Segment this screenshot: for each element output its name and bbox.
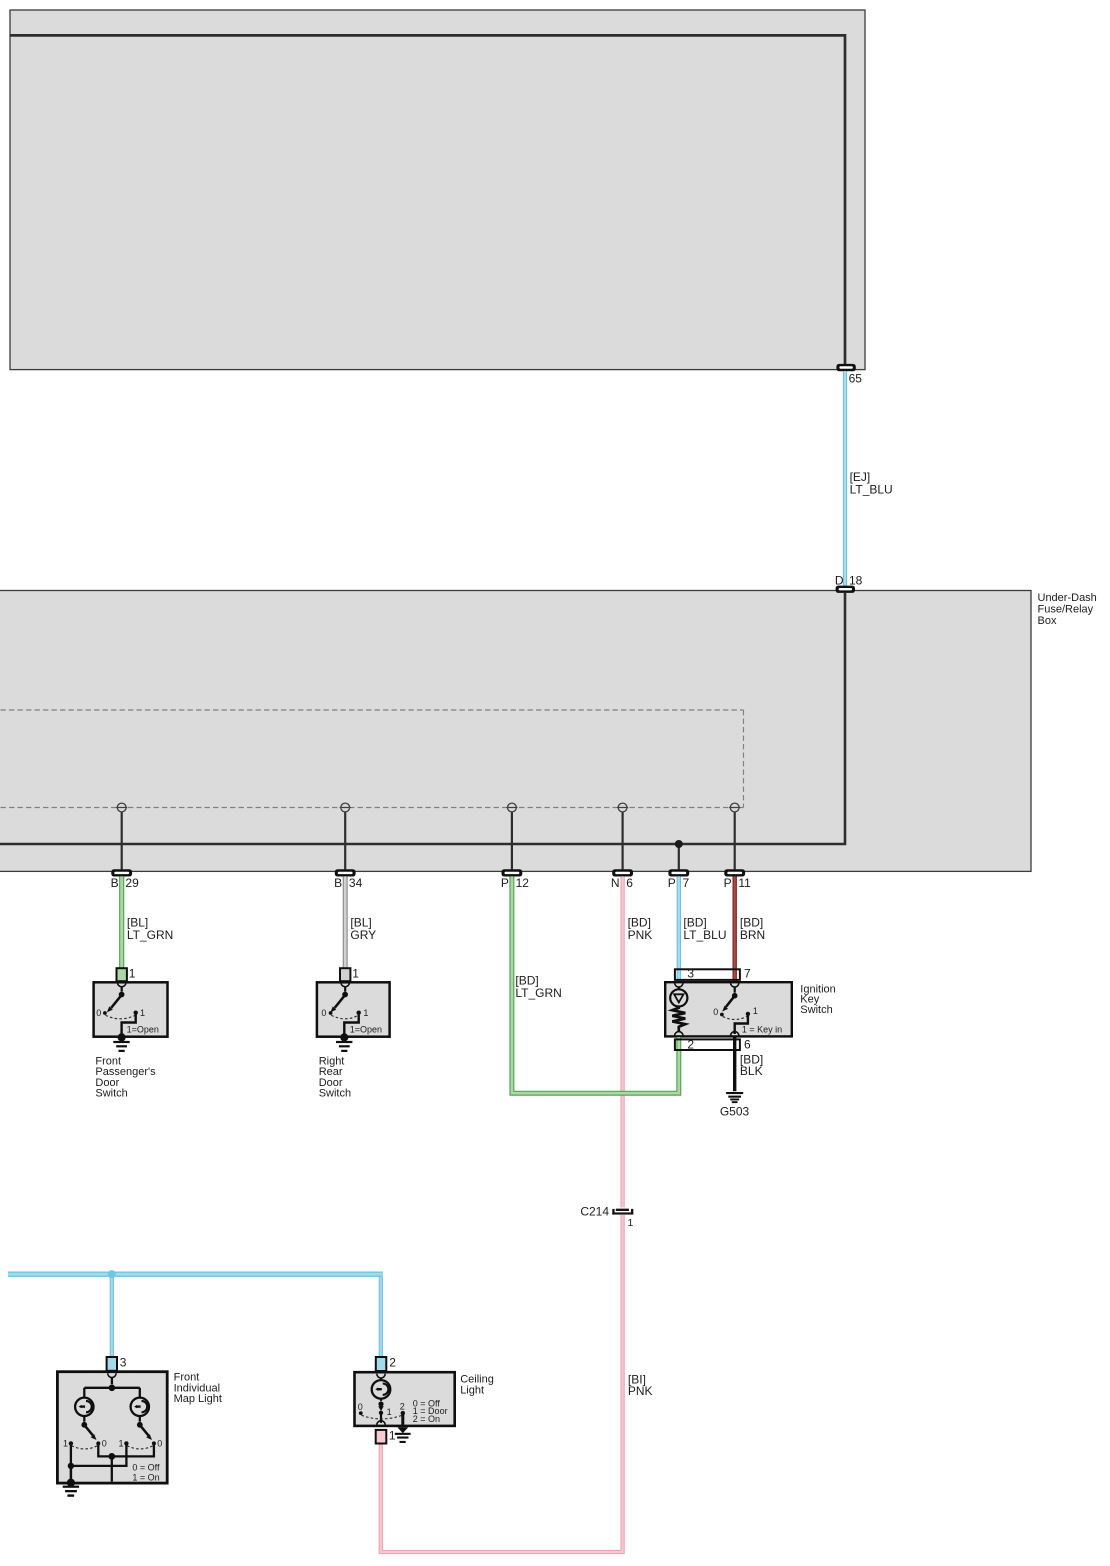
pin N 6 connector slot: [612, 869, 633, 876]
pin 3 of Front Individual Map Light: [107, 1357, 117, 1371]
switch assembly: Front Passenger's Door Switch: [96, 983, 159, 1042]
wire: [BD] BLK from pin 6 to G503: [733, 1038, 736, 1092]
node circle B 29: [116, 803, 127, 812]
svg-text:PNK: PNK: [628, 928, 653, 942]
svg-text:BLK: BLK: [740, 1064, 763, 1078]
wire: LT_BLU feed bus to map light and ceiling light: [8, 1271, 383, 1276]
junction on bus at P 7: [675, 840, 683, 848]
terminal cup pin 2: [377, 1374, 385, 1378]
svg-text:Map Light: Map Light: [174, 1393, 222, 1405]
wire: [BL] LT_GRN from B 29 to Front Passenger's Door Switch: [119, 876, 124, 981]
pin P 11 connector slot: [724, 869, 745, 876]
svg-text:P: P: [668, 876, 676, 890]
switch right of map light: [118, 1416, 162, 1449]
box: upper module (cut off at left edge): [10, 10, 865, 370]
switch left of map light: [63, 1416, 107, 1449]
wire contact 1 to pin 1: [380, 1413, 382, 1423]
contact 1 dot: [357, 1011, 361, 1015]
contact 0 dot: [359, 1411, 363, 1415]
dashed internal boundary: [0, 710, 744, 808]
ground junction dot: [340, 1033, 348, 1041]
pin P 7 connector slot: [668, 869, 689, 876]
contact 1 dot: [746, 1012, 750, 1016]
box: Right Rear Door Switch: [317, 982, 390, 1036]
connector rect pins 3/7 of ignition key switch: [675, 969, 740, 980]
terminal cup pin 6: [731, 1032, 739, 1036]
wire: internal stem P 11: [734, 808, 736, 870]
node circle B 34: [340, 803, 351, 812]
box: Ceiling Light: [355, 1372, 455, 1426]
wire: internal stem N 6: [621, 808, 623, 870]
wire: [BD] LT_GRN from P 12 to ignition key switch pin 2: [512, 876, 679, 1093]
wire: internal bus from D 18 down and left: [0, 593, 845, 844]
pin D 18 connector slot: [836, 586, 855, 593]
svg-text:Fuse/Relay: Fuse/Relay: [1038, 603, 1094, 615]
ground symbol of Right Rear Door Switch: [336, 1041, 352, 1052]
wire: [BD] LT_BLU from P 7 to ignition pin 3: [677, 876, 681, 981]
svg-text:12: 12: [516, 876, 530, 890]
contact 1 dot: [134, 1011, 138, 1015]
ceiling light switch: [358, 1399, 405, 1428]
wire from contact 1 to ground point: [122, 1014, 136, 1035]
terminal cup pin 3: [108, 1373, 116, 1377]
svg-text:Switch: Switch: [800, 1004, 832, 1016]
svg-text:1: 1: [753, 1006, 758, 1016]
in-line connector C214: [612, 1209, 633, 1215]
junction dot on blue bus: [108, 1270, 116, 1278]
svg-text:G503: G503: [720, 1105, 750, 1119]
svg-text:3: 3: [687, 966, 694, 980]
bus joining 1 contacts to ground: [67, 1443, 127, 1486]
svg-text:Under-Dash: Under-Dash: [1038, 592, 1097, 604]
terminal cup pin 7: [731, 983, 739, 987]
svg-text:P: P: [724, 876, 732, 890]
wire from contact 1 to ground point: [344, 1014, 358, 1035]
svg-text:18: 18: [849, 574, 863, 588]
wire: [BL] GRY from B 34 to Right Rear Door Switch: [343, 876, 348, 981]
pin 1 of Front Passenger's Door Switch: [117, 968, 127, 981]
switch blade: [726, 997, 734, 1007]
svg-text:0: 0: [96, 1008, 101, 1018]
terminal cup pin 1: [341, 983, 349, 987]
svg-text:0: 0: [157, 1439, 162, 1449]
contact 0 dot: [103, 1011, 107, 1015]
svg-text:1: 1: [63, 1439, 68, 1449]
svg-text:P: P: [501, 876, 509, 890]
svg-text:1: 1: [363, 1008, 368, 1018]
wire: internal bus of upper module to pin 65: [10, 35, 845, 364]
pin B 34 connector slot: [335, 869, 356, 876]
svg-text:GRY: GRY: [350, 928, 376, 942]
svg-text:1: 1: [352, 966, 359, 980]
switch blade: [111, 996, 121, 1008]
svg-text:0: 0: [358, 1402, 363, 1412]
bus joining 0 contacts: [98, 1443, 154, 1481]
key switch assembly: [713, 983, 782, 1036]
pin B 29 connector slot: [111, 869, 132, 876]
svg-text:0: 0: [321, 1008, 326, 1018]
contact 0 dot: [329, 1011, 333, 1015]
ground symbol of map light: [63, 1486, 79, 1497]
box: Under-Dash Fuse/Relay Box (cut off at left edge): [0, 591, 1031, 872]
lamp left of map light: [75, 1398, 93, 1416]
wire: [BD] PNK from N 6 to C214: [620, 876, 624, 1207]
svg-text:C214: C214: [580, 1205, 609, 1219]
svg-text:B: B: [334, 876, 342, 890]
contact 2 dot: [401, 1411, 405, 1415]
wire: [BI] PNK from C214 to Ceiling Light pin 1: [381, 1215, 623, 1552]
dashed throw arc: [106, 1015, 136, 1019]
resistor (zigzag): [672, 1007, 685, 1032]
svg-text:3: 3: [120, 1356, 127, 1370]
switch blade: [335, 996, 345, 1008]
wire: internal stem B 34: [344, 808, 346, 870]
terminal cup pin 2: [675, 1032, 683, 1036]
svg-text:11: 11: [738, 876, 751, 890]
svg-text:65: 65: [849, 372, 863, 386]
lamp right of map light: [131, 1398, 149, 1416]
connector outline pins 3/7: [675, 969, 740, 980]
dashed throw arc: [331, 1015, 358, 1019]
svg-text:LT_BLU: LT_BLU: [683, 928, 726, 942]
key-in indicator lamp: [670, 983, 687, 1007]
ground symbol of Front Passenger's Door Switch: [113, 1041, 129, 1052]
svg-text:1=Open: 1=Open: [350, 1025, 382, 1035]
pivot dot: [732, 993, 738, 999]
ceiling lamp: [372, 1374, 391, 1399]
wire: [BD] BRN from P 11 to ignition pin 7: [733, 876, 737, 981]
svg-text:PNK: PNK: [628, 1384, 653, 1398]
svg-text:6: 6: [626, 876, 633, 890]
wire from contact 1 to pin 6: [735, 1015, 748, 1034]
svg-text:Light: Light: [460, 1385, 484, 1397]
terminal cup pin 1: [377, 1421, 385, 1425]
svg-text:29: 29: [125, 876, 139, 890]
junction dot feed split: [109, 1385, 116, 1392]
svg-text:B: B: [111, 876, 119, 890]
wire: green tail into pin 2: [676, 1037, 681, 1049]
pin 2 of Ceiling Light: [376, 1357, 387, 1371]
contact 1 dot: [379, 1411, 383, 1415]
svg-text:2 = On: 2 = On: [413, 1414, 440, 1424]
svg-text:1=Open: 1=Open: [127, 1025, 159, 1035]
pivot dot: [342, 992, 348, 998]
svg-text:0 = Off: 0 = Off: [132, 1462, 160, 1472]
pin 1 of Right Rear Door Switch: [340, 968, 350, 981]
wire: internal stem P 12: [511, 808, 513, 870]
connector outline pins 2/6: [675, 1039, 740, 1050]
contact 0 dot: [720, 1013, 724, 1017]
wire stub: [121, 987, 123, 992]
pin P 12 connector slot: [502, 869, 523, 876]
wire: internal stem P 7 from bus junction: [678, 844, 680, 869]
wire contact 2 to case ground: [401, 1414, 404, 1428]
svg-text:7: 7: [683, 876, 690, 890]
svg-text:2: 2: [687, 1037, 694, 1051]
svg-text:1: 1: [118, 1439, 123, 1449]
svg-text:0: 0: [102, 1439, 107, 1449]
box: Front Individual Map Light: [57, 1372, 167, 1483]
svg-text:LT_BLU: LT_BLU: [850, 483, 893, 497]
svg-text:2: 2: [389, 1356, 396, 1370]
svg-text:Switch: Switch: [319, 1088, 351, 1100]
wire: [EJ] LT_BLU from pin 65 to D 18: [843, 371, 847, 586]
svg-text:D: D: [835, 574, 844, 588]
switch assembly: Right Rear Door Switch: [321, 983, 382, 1042]
svg-text:2: 2: [400, 1402, 405, 1412]
svg-text:1 = Key in: 1 = Key in: [742, 1025, 782, 1035]
box: Front Passenger's Door Switch: [94, 982, 168, 1036]
svg-text:1 = On: 1 = On: [132, 1473, 159, 1483]
svg-text:1: 1: [387, 1407, 392, 1417]
svg-text:0: 0: [713, 1007, 718, 1017]
svg-text:1: 1: [140, 1008, 145, 1018]
svg-text:LT_GRN: LT_GRN: [515, 986, 561, 1000]
map light internal harness: [84, 1373, 140, 1397]
ground symbol of ceiling light: [395, 1427, 411, 1443]
svg-text:LT_GRN: LT_GRN: [127, 928, 173, 942]
node circle P 12: [506, 803, 517, 812]
svg-text:Switch: Switch: [95, 1088, 127, 1100]
pin 1 of Ceiling Light: [376, 1430, 387, 1444]
svg-text:BRN: BRN: [740, 928, 765, 942]
ground symbol G503: [726, 1092, 743, 1103]
T branch to both lamps: [84, 1387, 140, 1389]
dashed throw arc: [361, 1415, 402, 1419]
wire: internal stem B 29: [121, 808, 123, 870]
terminal cup pin 1: [118, 983, 126, 987]
box: Ignition Key Switch: [665, 982, 792, 1036]
svg-text:7: 7: [744, 966, 751, 980]
svg-text:6: 6: [744, 1037, 751, 1051]
dashed throw arc: [723, 1016, 748, 1019]
svg-text:1: 1: [628, 1217, 634, 1229]
svg-text:34: 34: [349, 876, 363, 890]
svg-text:1: 1: [129, 966, 136, 980]
connector rect pins 2/6 of ignition key switch: [675, 1039, 740, 1050]
svg-text:N: N: [611, 876, 620, 890]
wire: LT_BLU drop to map light pin 3: [110, 1277, 114, 1357]
ground junction dot: [118, 1033, 126, 1041]
pin 65 connector slot: [836, 364, 855, 371]
pivot dot: [119, 992, 125, 998]
node circle N 6: [617, 803, 628, 812]
wire: LT_BLU drop to ceiling light pin 2: [379, 1277, 383, 1357]
svg-text:Box: Box: [1038, 615, 1057, 627]
terminal cup pin 3: [675, 983, 683, 987]
wire stub: [344, 987, 346, 992]
node circle P 11: [729, 803, 740, 812]
svg-text:1: 1: [389, 1429, 396, 1443]
